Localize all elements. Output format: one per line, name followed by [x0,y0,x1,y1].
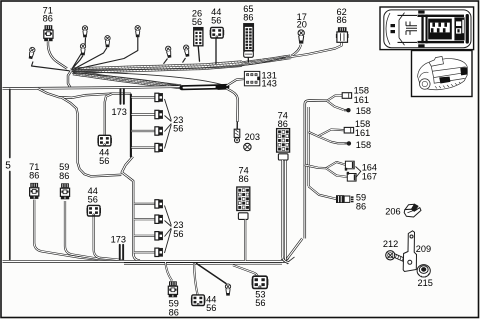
connector 26/56 [194,28,203,46]
wire branch to 158 pin g1 [327,101,344,110]
harness bundle top run taper [242,55,290,62]
svg-text:173: 173 [112,107,127,117]
harness bundle top run to rear right [72,61,242,68]
wire fan from junction to lamp sockets [32,36,186,71]
nut 215 [417,265,430,278]
svg-text:158: 158 [356,140,371,150]
lamp socket B2 [82,26,87,38]
lamp socket B5 [135,26,140,38]
wire to connector 131/143 [227,79,245,86]
clip 206 [404,204,421,217]
wire 74/86 center lead [244,219,246,261]
wire stem 23/56 top 1 [132,96,155,98]
svg-text:86: 86 [278,119,288,129]
tail lamps [439,77,450,84]
svg-text:209: 209 [416,244,431,254]
svg-text:86: 86 [29,171,39,181]
flag terminal 164 [345,161,354,169]
wire 44/56 top stub [215,39,217,64]
wire bottom harness inner line [124,262,282,264]
fan junction drop [68,71,71,88]
connector 53/56 [252,276,269,288]
svg-text:86: 86 [336,15,346,25]
harness bundle run into sheath [73,71,181,85]
wire branch to 158 g1 [327,96,342,101]
lamp socket (bottom, single wire) [197,264,227,284]
harness spine [130,95,132,157]
plug 23/56 bottom 2 [155,215,163,223]
svg-text:212: 212 [383,239,398,249]
wire right spine [305,101,327,239]
lamp socket B3 [80,44,85,56]
svg-text:56: 56 [88,194,98,204]
clamp 173 (upper) [120,88,122,105]
car rear sketch [418,56,468,89]
wire 71/86 bottom lead [34,200,98,260]
wire to connector 71/86 top [48,42,67,69]
trunk wire 5 [9,89,11,259]
svg-text:86: 86 [238,174,248,184]
connector 74/86 (center) [237,187,250,211]
pin terminal 158 (group1) [346,108,350,112]
wire 65/86 stub [247,57,249,61]
svg-text:161: 161 [354,95,369,105]
wire to terminal 203 [227,88,238,122]
svg-text:86: 86 [43,14,53,24]
wire stem 23/56 bottom 1 [134,203,155,205]
plug 23/56 top 3 [155,127,163,135]
car body outline (top view) [384,10,471,48]
wire branch to 158 pin g2 [318,136,345,143]
grommet 203 [244,143,251,150]
lamp socket 17/20 [298,30,304,44]
svg-text:161: 161 [355,128,370,138]
wire 53/56 lead [233,265,258,277]
wire branch line B [38,89,131,98]
svg-text:86: 86 [356,201,366,211]
svg-text:56: 56 [173,229,183,239]
harness sheath segment [182,84,218,90]
wire stem 23/56 bottom 2 [134,218,155,220]
wire branch to 164/167 [305,165,326,168]
plug 23/56 bottom 3 [155,232,163,240]
lamp socket B4 [105,36,110,48]
wire to connector 44/56 center [105,94,112,135]
main harness line A [3,87,182,89]
connector 62/86 [338,27,347,31]
wire spine lower [122,157,140,261]
svg-text:56: 56 [206,303,216,313]
screw 212 [386,251,395,260]
lamp socket B1 [28,47,36,59]
svg-text:173: 173 [111,235,126,245]
svg-text:56: 56 [99,156,109,166]
wire stem 23/56 bottom 3 [134,235,155,237]
wire right spine second strand [308,107,310,186]
wire to 59/86 right [309,186,337,199]
connector 71/86 (top left) [44,25,53,41]
svg-text:143: 143 [262,78,277,88]
inset box: car top view [380,7,474,50]
wire branch to 158 g2 [309,130,344,137]
flag terminal 167 [347,174,356,182]
twist marks at rise [281,257,295,264]
wire hairpin branch [62,98,121,177]
sheath end ferrule [218,84,226,90]
wire to lamp 17/20 [292,45,302,56]
wire 26/56 stub [198,46,199,61]
wire harness rise right [285,239,302,262]
svg-text:158: 158 [354,86,369,96]
wire right inner strand [284,160,286,260]
connector 59/86 (bottom) [168,281,177,297]
svg-text:215: 215 [418,278,433,288]
plug 23/56 bottom 4 [155,248,163,256]
connector 59/86 (bottom left) [60,183,69,199]
bracket lines 23/56 top [165,99,172,149]
svg-text:56: 56 [173,124,183,134]
harness drawing inside inset [391,11,469,48]
brace 164/167 [356,167,361,178]
wire 59/86 bottom lead [166,262,173,281]
lamp socket B7 [183,45,190,57]
wire 44/56 bottom lead [194,263,198,295]
wire stem 23/56 top 4 [132,147,155,149]
pin terminal 158 (group2) [347,141,351,145]
plug 23/56 top 4 [155,143,163,151]
svg-text:5: 5 [5,161,11,172]
svg-text:158: 158 [356,106,371,116]
ring terminal (203 wire) [234,129,240,137]
connector 59/86 (right) [336,195,344,203]
wire 59/86 bottom-left lead [65,201,114,260]
wire stem 23/56 bottom 4 [134,251,155,253]
connector 65/86 [244,24,253,51]
bottom harness main run [3,260,287,263]
wire 167 lead [326,168,348,177]
connector 71/86 (bottom left) [30,183,39,199]
wire 164 lead [326,162,346,168]
inset box: car rear 3d view [412,51,473,97]
svg-text:56: 56 [211,15,221,25]
plug 23/56 top 1 [155,93,163,101]
clamp 173 (lower) [119,244,121,260]
plug 158 (group2) [344,127,353,133]
svg-text:56: 56 [255,298,265,308]
svg-text:206: 206 [385,207,400,217]
wire 74/86 right lead [282,160,289,263]
bracket lines 23/56 bottom [165,206,172,254]
svg-text:86: 86 [243,13,253,23]
svg-text:20: 20 [297,20,307,30]
svg-text:56: 56 [192,17,202,27]
connector 44/56 (top) [210,27,225,38]
bundle interior strands [72,72,227,87]
connector 44/56 (center) [97,135,112,146]
svg-text:167: 167 [362,171,377,181]
plug 158 (group1) [342,93,351,99]
wire to connector 62/86 [291,42,342,57]
svg-text:86: 86 [59,171,69,181]
lamp socket B6 [165,46,172,58]
connector 44/56 (bottom) [191,295,206,306]
wire 44/56 left lead [94,216,124,260]
connector 131/143 [244,71,259,85]
svg-text:203: 203 [245,132,260,142]
wire stem 23/56 top 2 [132,113,155,115]
connector 74/86 (right) [277,129,290,153]
connector 44/56 (left, hanging) [87,205,102,216]
bracket 209 [403,231,416,272]
svg-text:86: 86 [169,307,179,317]
plug 23/56 top 2 [155,110,163,118]
wire stem 23/56 top 3 [132,130,155,132]
plug 23/56 bottom 1 [155,200,163,208]
